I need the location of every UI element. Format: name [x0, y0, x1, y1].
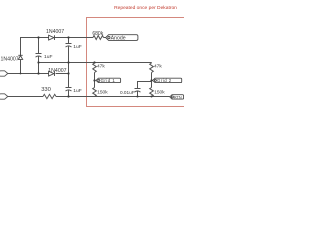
- svg-text:1N4007: 1N4007: [1, 57, 19, 63]
- svg-text:47k: 47k: [97, 63, 105, 69]
- svg-text:680k: 680k: [92, 31, 103, 37]
- svg-text:Anode: Anode: [111, 36, 126, 42]
- svg-text:1uF: 1uF: [73, 88, 81, 94]
- svg-text:Repeated once per Dekatron: Repeated once per Dekatron: [114, 5, 177, 11]
- svg-text:0.01uF: 0.01uF: [120, 90, 135, 95]
- svg-text:Grid 1: Grid 1: [101, 78, 116, 83]
- svg-text:1N4007: 1N4007: [48, 68, 66, 74]
- svg-text:150k: 150k: [154, 89, 165, 95]
- svg-text:47k: 47k: [154, 63, 162, 69]
- svg-text:1N4007: 1N4007: [46, 29, 64, 35]
- svg-text:Grid 2: Grid 2: [157, 78, 172, 83]
- svg-text:330: 330: [41, 87, 51, 93]
- svg-text:RTN: RTN: [174, 96, 182, 100]
- svg-text:150k: 150k: [97, 89, 108, 95]
- svg-text:1uF: 1uF: [73, 44, 81, 50]
- svg-text:1uF: 1uF: [44, 54, 52, 60]
